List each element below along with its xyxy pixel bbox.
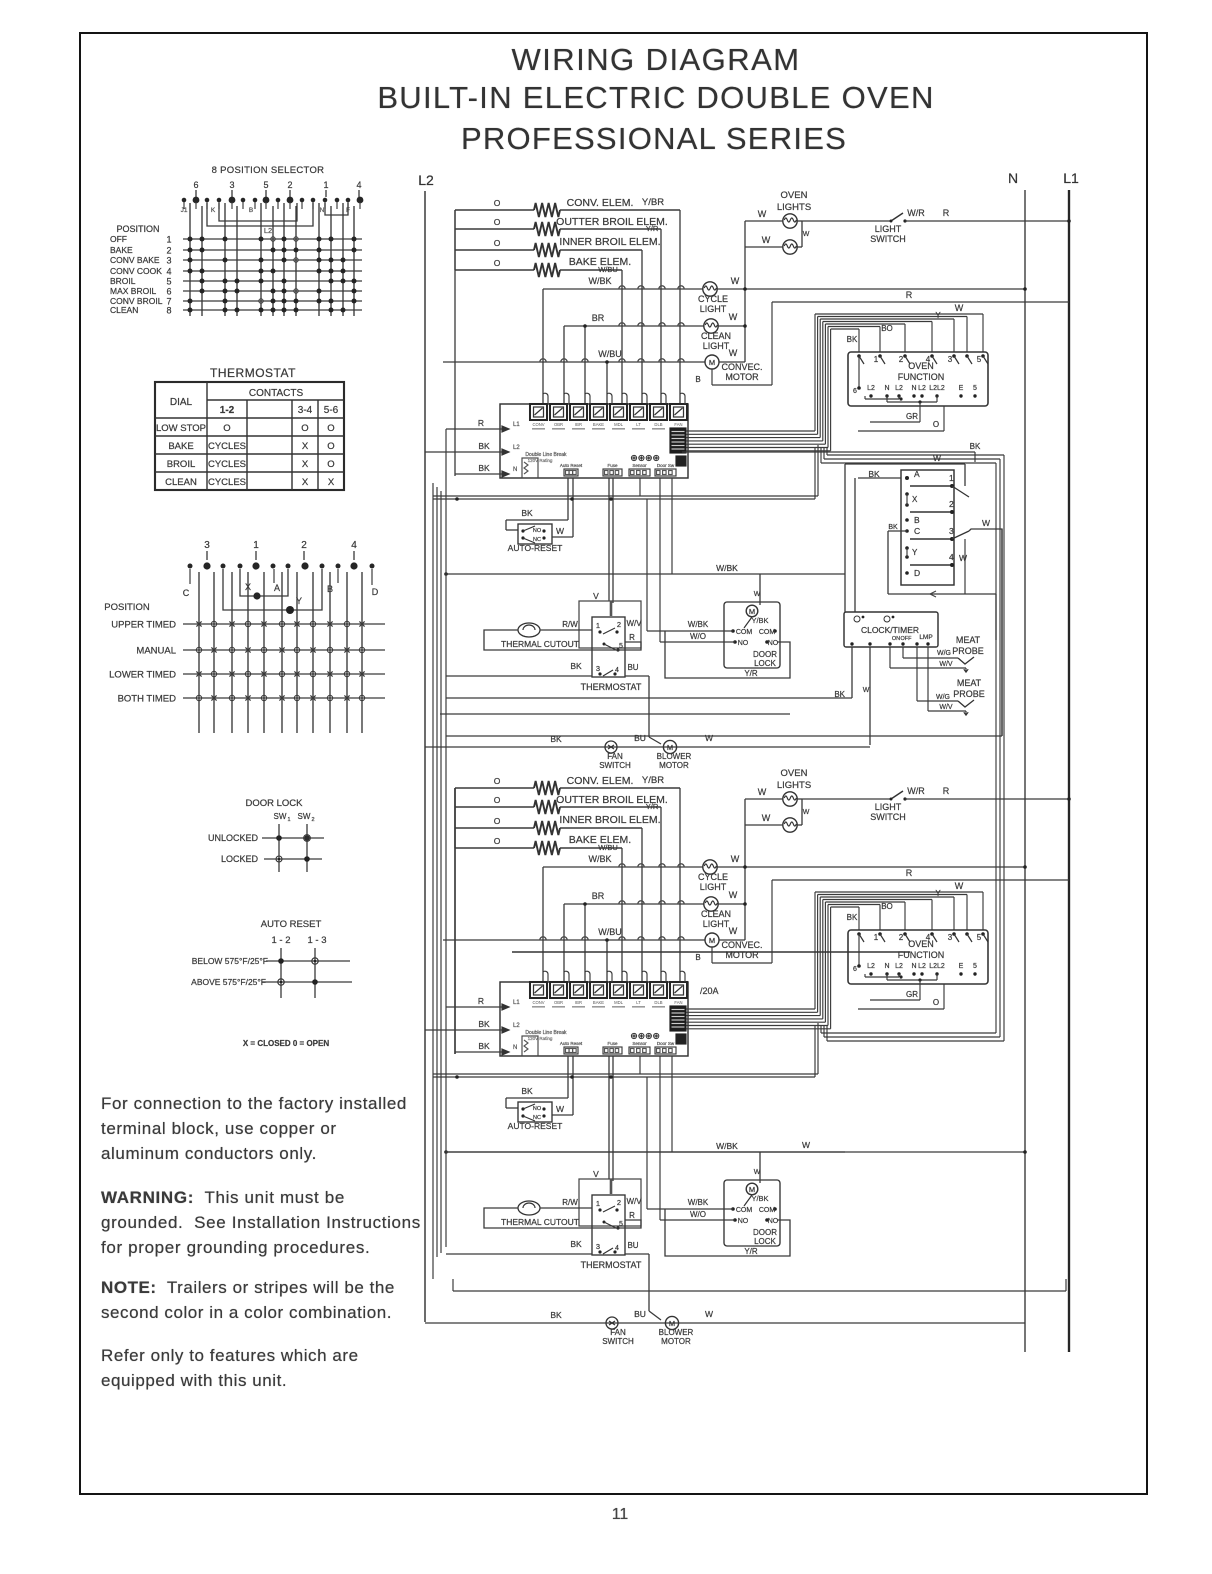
svg-text:E: E — [959, 963, 964, 970]
svg-text:1-2: 1-2 — [220, 405, 235, 416]
svg-text:4: 4 — [351, 540, 357, 551]
svg-text:Y/R: Y/R — [744, 669, 758, 678]
svg-text:R: R — [906, 868, 913, 878]
svg-text:2: 2 — [311, 817, 314, 823]
svg-text:L2: L2 — [418, 172, 434, 188]
svg-text:N: N — [513, 467, 517, 473]
svg-text:120V Rating: 120V Rating — [528, 458, 553, 463]
svg-text:BAKE: BAKE — [593, 422, 604, 427]
svg-text:W: W — [758, 209, 767, 219]
svg-text:THERMOSTAT: THERMOSTAT — [581, 1260, 642, 1270]
svg-text:NO: NO — [533, 528, 542, 534]
svg-text:X: X — [302, 459, 309, 470]
svg-text:W: W — [556, 1104, 564, 1114]
timer contacts box — [901, 470, 954, 585]
svg-text:3: 3 — [229, 180, 234, 190]
svg-text:O: O — [494, 816, 501, 826]
svg-text:M: M — [709, 936, 715, 945]
svg-text:CYCLES: CYCLES — [208, 441, 246, 452]
svg-text:UPPER TIMED: UPPER TIMED — [111, 620, 176, 631]
svg-text:CLEAN: CLEAN — [701, 909, 731, 919]
svg-text:W/BK: W/BK — [588, 854, 611, 864]
svg-text:CYCLE: CYCLE — [698, 872, 728, 882]
svg-text:DOOR: DOOR — [753, 1228, 777, 1237]
svg-text:W: W — [933, 453, 941, 463]
upper oven heating elements — [455, 209, 534, 211]
page number — [580, 1506, 660, 1524]
svg-text:L2L2: L2L2 — [929, 385, 945, 392]
svg-text:CONV: CONV — [532, 1000, 544, 1005]
svg-text:E: E — [959, 385, 964, 392]
svg-text:N: N — [1008, 170, 1018, 186]
svg-text:PROBE: PROBE — [953, 689, 985, 699]
svg-text:O: O — [223, 423, 230, 434]
upper board-to-component verticals — [639, 478, 641, 496]
svg-text:4: 4 — [926, 933, 931, 942]
svg-text:M: M — [749, 1185, 755, 1194]
svg-text:W: W — [802, 1140, 810, 1150]
svg-text:Y/R: Y/R — [646, 802, 659, 811]
svg-text:CONV COOK: CONV COOK — [110, 266, 162, 276]
svg-text:W: W — [762, 813, 771, 823]
svg-text:5: 5 — [973, 385, 977, 392]
svg-text:W: W — [731, 276, 740, 286]
svg-text:OBR: OBR — [554, 422, 563, 427]
svg-text:LT: LT — [636, 1000, 641, 1005]
svg-text:1: 1 — [949, 473, 954, 483]
svg-text:W: W — [556, 526, 564, 536]
svg-text:CONVEC.: CONVEC. — [721, 362, 762, 372]
upper oven light switch — [802, 220, 891, 222]
svg-text:BAKE: BAKE — [593, 1000, 604, 1005]
svg-text:BROIL: BROIL — [110, 276, 136, 286]
svg-text:OFF: OFF — [110, 234, 127, 244]
svg-text:OVEN: OVEN — [781, 190, 808, 201]
svg-text:GR: GR — [906, 990, 918, 999]
svg-text:DOOR LOCK: DOOR LOCK — [245, 798, 303, 809]
svg-text:K: K — [211, 207, 216, 214]
svg-text:1: 1 — [287, 817, 290, 823]
svg-text:BK: BK — [478, 463, 490, 473]
lower thermostat V feed — [608, 1056, 610, 1179]
svg-text:DOOR: DOOR — [753, 650, 777, 659]
svg-text:X = CLOSED 0 = OPEN: X = CLOSED 0 = OPEN — [243, 1039, 329, 1048]
svg-text:BK: BK — [970, 442, 981, 451]
upper bk bundle lines — [433, 495, 818, 497]
svg-text:BK: BK — [550, 1310, 562, 1320]
svg-text:O: O — [933, 420, 939, 429]
lower oven heating elements — [455, 787, 534, 789]
svg-text:IBR: IBR — [575, 422, 582, 427]
svg-text:AUTO RESET: AUTO RESET — [261, 919, 322, 930]
svg-text:W: W — [803, 809, 810, 816]
svg-text:J1: J1 — [181, 207, 188, 214]
svg-text:/20A: /20A — [700, 986, 719, 996]
svg-text:O: O — [494, 795, 501, 805]
svg-text:LIGHTS: LIGHTS — [777, 202, 811, 213]
svg-text:Y/BR: Y/BR — [642, 197, 664, 208]
svg-text:M: M — [667, 743, 673, 752]
svg-text:B: B — [914, 515, 920, 525]
svg-text:2: 2 — [949, 499, 954, 509]
svg-text:THERMOSTAT: THERMOSTAT — [581, 682, 642, 692]
svg-text:L1: L1 — [1063, 170, 1079, 186]
svg-text:W/BK: W/BK — [716, 563, 738, 573]
svg-text:W/O: W/O — [690, 1210, 706, 1219]
svg-text:1: 1 — [323, 180, 328, 190]
upper oven control board — [500, 404, 688, 478]
upper auto reset switch — [567, 478, 569, 520]
svg-text:O: O — [301, 423, 308, 434]
svg-text:X: X — [328, 477, 335, 488]
svg-text:2: 2 — [899, 933, 904, 942]
svg-text:R: R — [906, 290, 913, 300]
svg-text:L2: L2 — [895, 385, 903, 392]
svg-text:L2L2: L2L2 — [929, 963, 945, 970]
svg-text:1: 1 — [874, 933, 879, 942]
svg-text:W: W — [705, 1309, 713, 1319]
svg-text:D: D — [914, 568, 920, 578]
selector grid — [189, 203, 191, 316]
svg-text:THERMAL CUTOUT: THERMAL CUTOUT — [501, 1217, 579, 1227]
svg-text:5-6: 5-6 — [324, 405, 339, 416]
svg-text:W/R: W/R — [907, 786, 925, 796]
svg-text:L2: L2 — [918, 963, 926, 970]
svg-text:POSITION: POSITION — [104, 602, 150, 613]
svg-text:R: R — [478, 418, 484, 428]
svg-text:LOCK: LOCK — [754, 659, 776, 668]
svg-text:THERMAL CUTOUT: THERMAL CUTOUT — [501, 639, 579, 649]
svg-text:W: W — [955, 303, 964, 313]
svg-text:DLB: DLB — [654, 1000, 662, 1005]
svg-text:O: O — [494, 258, 501, 268]
svg-text:8 POSITION SELECTOR: 8 POSITION SELECTOR — [212, 165, 325, 176]
clock/timer wires — [851, 647, 853, 698]
upper oven left bundle wires — [454, 210, 456, 270]
upper thermostat BK/BU wires — [446, 675, 592, 677]
svg-text:MEAT: MEAT — [957, 678, 982, 688]
lower bk bundle lines — [433, 1073, 818, 1075]
svg-text:MOTOR: MOTOR — [725, 372, 759, 382]
upper oven function selector — [815, 313, 983, 315]
svg-text:W/O: W/O — [690, 632, 706, 641]
svg-text:W: W — [729, 926, 738, 936]
svg-text:R: R — [629, 633, 635, 642]
svg-text:LOW STOP: LOW STOP — [156, 423, 206, 434]
svg-text:3: 3 — [166, 256, 171, 266]
svg-text:W/V: W/V — [939, 704, 953, 711]
svg-text:LOCKED: LOCKED — [221, 854, 259, 864]
svg-text:SW: SW — [274, 812, 287, 821]
svg-text:CLOCK/TIMER: CLOCK/TIMER — [861, 625, 919, 635]
svg-text:L2: L2 — [895, 963, 903, 970]
upper board ribbon bundle — [686, 430, 815, 432]
lower auto reset switch — [567, 1056, 569, 1098]
svg-text:2: 2 — [617, 1198, 621, 1207]
svg-text:BO: BO — [881, 902, 893, 911]
svg-text:BK: BK — [570, 661, 582, 671]
svg-text:3-4: 3-4 — [298, 405, 313, 416]
svg-text:5: 5 — [973, 963, 977, 970]
svg-text:CONV: CONV — [532, 422, 544, 427]
svg-text:X: X — [302, 477, 309, 488]
svg-text:Y: Y — [935, 889, 941, 898]
svg-text:N: N — [320, 207, 325, 214]
svg-text:MDL: MDL — [614, 422, 624, 427]
svg-text:BELOW 575°F/25°F: BELOW 575°F/25°F — [192, 956, 268, 966]
svg-text:W: W — [959, 553, 967, 563]
svg-text:LIGHT: LIGHT — [700, 304, 727, 314]
upper fan row — [425, 746, 870, 748]
svg-text:POSITION: POSITION — [116, 224, 159, 234]
lower oven convection motor — [443, 939, 705, 941]
upper thermostat V feed — [608, 478, 610, 601]
svg-text:L2: L2 — [867, 963, 875, 970]
svg-text:Sensor: Sensor — [632, 463, 647, 468]
svg-text:Y/BK: Y/BK — [751, 616, 768, 625]
lower thermostat — [592, 1195, 625, 1255]
svg-text:SWITCH: SWITCH — [599, 761, 631, 770]
svg-text:W/V: W/V — [939, 661, 953, 668]
svg-text:B: B — [695, 375, 700, 384]
svg-text:N: N — [911, 385, 916, 392]
svg-text:W: W — [705, 733, 713, 743]
svg-text:L1: L1 — [513, 1000, 520, 1006]
upper door lock — [724, 602, 780, 668]
svg-text:BK: BK — [521, 1086, 533, 1096]
svg-text:L1: L1 — [513, 422, 520, 428]
svg-text:BK: BK — [847, 335, 858, 344]
svg-text:FAN: FAN — [610, 1328, 626, 1337]
svg-text:PROBE: PROBE — [952, 646, 984, 656]
svg-text:NO: NO — [738, 1218, 749, 1225]
svg-text:W/BU: W/BU — [598, 349, 622, 359]
svg-text:4: 4 — [356, 180, 361, 190]
svg-text:A: A — [274, 583, 280, 593]
svg-text:V: V — [593, 591, 599, 601]
svg-text:CONV BAKE: CONV BAKE — [110, 255, 160, 265]
upper oven convection motor — [443, 361, 705, 363]
svg-text:W: W — [729, 312, 738, 322]
svg-text:6: 6 — [853, 388, 857, 395]
svg-text:L2: L2 — [513, 445, 520, 451]
svg-text:CYCLES: CYCLES — [208, 459, 246, 470]
svg-text:6: 6 — [853, 966, 857, 973]
svg-text:O: O — [327, 441, 334, 452]
svg-text:W/BU: W/BU — [598, 927, 622, 937]
svg-text:MANUAL: MANUAL — [136, 646, 176, 657]
svg-text:W/BK: W/BK — [716, 1141, 738, 1151]
svg-text:W/BU: W/BU — [598, 265, 618, 274]
svg-text:4: 4 — [926, 355, 931, 364]
svg-text:L2: L2 — [867, 385, 875, 392]
svg-text:W/BK: W/BK — [588, 276, 611, 286]
svg-text:O: O — [327, 423, 334, 434]
svg-text:M: M — [709, 358, 715, 367]
svg-text:MOTOR: MOTOR — [661, 1337, 691, 1346]
svg-text:O: O — [494, 776, 501, 786]
svg-text:6: 6 — [193, 180, 198, 190]
svg-text:CYCLES: CYCLES — [208, 477, 246, 488]
svg-text:Y: Y — [912, 548, 918, 557]
svg-text:FAN: FAN — [674, 422, 682, 427]
svg-text:4: 4 — [166, 267, 171, 277]
svg-text:BAKE: BAKE — [110, 245, 133, 255]
svg-text:5: 5 — [619, 643, 623, 650]
svg-text:BLOWER: BLOWER — [657, 752, 692, 761]
svg-text:LIGHT: LIGHT — [875, 224, 902, 234]
svg-text:3: 3 — [949, 526, 954, 536]
lower oven W line — [446, 1151, 1025, 1153]
svg-text:Door Sw: Door Sw — [657, 463, 675, 468]
svg-text:BU: BU — [634, 1309, 646, 1319]
svg-text:BK: BK — [847, 913, 858, 922]
svg-text:R/W: R/W — [562, 620, 578, 629]
svg-text:AUTO-RESET: AUTO-RESET — [508, 543, 563, 553]
upper oven cycle light — [543, 288, 703, 290]
svg-text:LMP: LMP — [919, 634, 932, 641]
svg-text:1: 1 — [874, 355, 879, 364]
svg-text:CYCLE: CYCLE — [698, 294, 728, 304]
svg-text:2: 2 — [166, 246, 171, 256]
lower long line to L1 — [453, 1290, 1066, 1292]
svg-text:BU: BU — [627, 1241, 638, 1250]
svg-text:O: O — [933, 998, 939, 1007]
svg-text:W: W — [754, 1169, 761, 1176]
svg-text:Sensor: Sensor — [632, 1041, 647, 1046]
svg-text:DIAL: DIAL — [170, 397, 193, 408]
svg-text:R: R — [478, 996, 484, 1006]
svg-text:8: 8 — [166, 306, 171, 316]
lower thermostat BK/BU wires — [446, 1253, 592, 1255]
timed grid — [198, 572, 200, 733]
svg-text:O: O — [327, 459, 334, 470]
svg-text:W/BK: W/BK — [688, 620, 709, 629]
svg-text:3: 3 — [948, 933, 953, 942]
svg-text:GR: GR — [906, 412, 918, 421]
svg-text:OFF: OFF — [901, 636, 913, 642]
lower board left pins — [502, 1004, 509, 1010]
svg-text:LOWER TIMED: LOWER TIMED — [109, 670, 176, 681]
svg-text:BK: BK — [521, 508, 533, 518]
svg-text:W/G: W/G — [937, 650, 951, 657]
svg-text:2: 2 — [287, 180, 292, 190]
svg-text:W/BU: W/BU — [598, 843, 618, 852]
svg-text:1 - 2: 1 - 2 — [271, 935, 290, 946]
svg-text:5: 5 — [977, 933, 982, 942]
svg-text:N: N — [884, 385, 889, 392]
svg-text:W: W — [731, 854, 740, 864]
svg-text:4: 4 — [949, 552, 954, 562]
svg-text:V: V — [593, 1169, 599, 1179]
note paragraphs — [101, 1092, 407, 1167]
svg-text:R: R — [629, 1211, 635, 1220]
svg-text:SWITCH: SWITCH — [870, 812, 906, 822]
svg-text:W: W — [982, 518, 990, 528]
svg-text:3: 3 — [596, 664, 600, 673]
svg-text:LIGHT: LIGHT — [703, 919, 730, 929]
svg-text:COM: COM — [736, 629, 753, 636]
svg-text:BLOWER: BLOWER — [659, 1328, 694, 1337]
svg-text:COM: COM — [736, 1207, 753, 1214]
svg-text:SWITCH: SWITCH — [602, 1337, 634, 1346]
svg-text:BAKE: BAKE — [168, 441, 193, 452]
svg-text:CONV. ELEM.: CONV. ELEM. — [567, 775, 634, 787]
svg-text:BU: BU — [634, 733, 646, 743]
svg-text:LIGHTS: LIGHTS — [777, 780, 811, 791]
svg-text:Fuse: Fuse — [607, 463, 618, 468]
svg-text:FAN: FAN — [674, 1000, 682, 1005]
svg-text:BROIL: BROIL — [167, 459, 196, 470]
svg-text:5: 5 — [263, 180, 268, 190]
svg-text:SW: SW — [298, 812, 311, 821]
svg-text:3: 3 — [204, 540, 210, 551]
upper oven function lower band — [827, 454, 1004, 456]
svg-text:SWITCH: SWITCH — [870, 234, 906, 244]
svg-text:LIGHT: LIGHT — [875, 802, 902, 812]
svg-text:X: X — [912, 495, 918, 504]
lower oven clean light — [564, 903, 704, 905]
svg-text:COM: COM — [759, 1207, 776, 1214]
svg-text:CONV. ELEM.: CONV. ELEM. — [567, 197, 634, 209]
lower oven cycle light — [543, 866, 703, 868]
svg-text:W: W — [729, 348, 738, 358]
svg-text:W: W — [803, 231, 810, 238]
svg-text:BK: BK — [550, 734, 562, 744]
svg-text:OVEN: OVEN — [781, 768, 808, 779]
upper oven clean light — [564, 325, 704, 327]
svg-text:W: W — [729, 890, 738, 900]
svg-text:M: M — [749, 607, 755, 616]
svg-text:BK: BK — [478, 1019, 490, 1029]
svg-text:OBR: OBR — [554, 1000, 563, 1005]
svg-text:INNER BROIL ELEM.: INNER BROIL ELEM. — [559, 814, 660, 826]
svg-text:BK: BK — [478, 1041, 490, 1051]
svg-text:W/V: W/V — [626, 1197, 642, 1206]
svg-text:W: W — [754, 591, 761, 598]
svg-text:O: O — [494, 198, 501, 208]
svg-text:O: O — [494, 836, 501, 846]
timer box wrap wires — [845, 463, 965, 465]
svg-text:5: 5 — [166, 277, 171, 287]
svg-text:O: O — [494, 217, 501, 227]
svg-text:AUTO-RESET: AUTO-RESET — [508, 1121, 563, 1131]
svg-text:W/V: W/V — [626, 619, 642, 628]
title block — [98, 42, 1212, 78]
svg-text:Auto Reset: Auto Reset — [560, 463, 583, 468]
svg-text:L2: L2 — [918, 385, 926, 392]
svg-text:CONVEC.: CONVEC. — [721, 940, 762, 950]
svg-text:FUNCTION: FUNCTION — [898, 372, 945, 382]
bk wire to timer area — [682, 451, 975, 453]
svg-text:ON: ON — [892, 636, 900, 642]
svg-text:M: M — [669, 1319, 675, 1328]
lower oven light switch — [802, 798, 891, 800]
svg-text:Door Sw: Door Sw — [657, 1041, 675, 1046]
svg-text:Y/BK: Y/BK — [751, 1194, 768, 1203]
svg-text:LIGHT: LIGHT — [700, 882, 727, 892]
svg-text:MOTOR: MOTOR — [659, 761, 689, 770]
svg-text:L2: L2 — [264, 226, 272, 235]
svg-text:2: 2 — [301, 540, 307, 551]
svg-text:Y: Y — [935, 311, 941, 320]
svg-text:BK: BK — [478, 441, 490, 451]
svg-text:W/R: W/R — [907, 208, 925, 218]
svg-text:BK: BK — [570, 1239, 582, 1249]
svg-text:IBR: IBR — [575, 1000, 582, 1005]
svg-text:DLB: DLB — [654, 422, 662, 427]
lower oven function lower band — [821, 1032, 996, 1034]
